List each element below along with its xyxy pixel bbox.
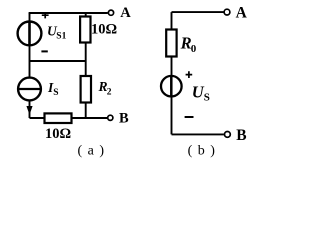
svg-text:S: S xyxy=(53,88,58,98)
node B label (a) xyxy=(119,111,129,127)
svg-text:S1: S1 xyxy=(56,31,66,41)
svg-text:B: B xyxy=(236,127,246,144)
value label U_S1 xyxy=(47,23,67,41)
svg-text:2: 2 xyxy=(107,88,112,98)
value label R_2 xyxy=(98,79,112,98)
value label R_0 xyxy=(180,34,197,56)
plus polarity mark of US1 xyxy=(42,12,49,18)
svg-text:0: 0 xyxy=(191,43,197,55)
svg-text:A: A xyxy=(120,5,131,21)
plus polarity mark of US xyxy=(186,71,193,78)
voltage source US1 circle xyxy=(18,22,42,46)
value label U_S xyxy=(192,82,210,103)
current source IS circle xyxy=(18,78,41,101)
svg-text:B: B xyxy=(119,111,129,127)
node A label (b) xyxy=(236,4,248,21)
node A label (a) xyxy=(120,5,131,21)
terminal A (a) xyxy=(108,10,113,15)
value label 10ohm (bottom) xyxy=(45,126,71,142)
wire: below IS with current direction arrow down to bottom rail xyxy=(29,100,31,118)
voltage source US circle xyxy=(161,76,182,97)
svg-text:A: A xyxy=(236,4,248,21)
resistor 10ohm vertical (top right of a) xyxy=(80,17,90,43)
wire: left branch of (b) vertical through source xyxy=(171,12,173,134)
svg-text:10Ω: 10Ω xyxy=(91,22,117,38)
wire: bottom rail of (b) xyxy=(172,133,224,135)
value label I_S xyxy=(47,80,58,98)
caption (b) xyxy=(188,144,221,159)
wire: middle horizontal wire of (a) xyxy=(30,60,86,62)
terminal B (a) xyxy=(108,115,113,120)
terminal B (b) xyxy=(225,132,231,138)
svg-text:(b): (b) xyxy=(188,144,221,159)
minus polarity mark of US1 xyxy=(41,50,47,52)
wire: bottom rail of (a) xyxy=(30,117,108,119)
arrow of IS pointing down xyxy=(27,106,32,114)
wire: circuit (a) top rail from left branch to terminal A xyxy=(29,12,108,14)
value label 10ohm (top) xyxy=(91,22,117,38)
wire: right branch of (a) vertical xyxy=(85,13,87,118)
resistor R2 xyxy=(81,76,91,103)
svg-text:10Ω: 10Ω xyxy=(45,126,71,142)
node B label (b) xyxy=(236,127,246,144)
resistor 10ohm horizontal in bottom rail xyxy=(45,113,72,123)
minus polarity mark of US xyxy=(185,116,194,118)
svg-text:(a): (a) xyxy=(77,144,109,159)
resistor R0 xyxy=(166,30,176,57)
svg-text:S: S xyxy=(204,92,210,104)
wire: circuit (b) top rail to terminal A xyxy=(172,11,224,13)
caption (a) xyxy=(77,144,109,159)
wire: left branch vertical through voltage source U_S1 xyxy=(29,13,31,78)
terminal A (b) xyxy=(224,9,230,15)
